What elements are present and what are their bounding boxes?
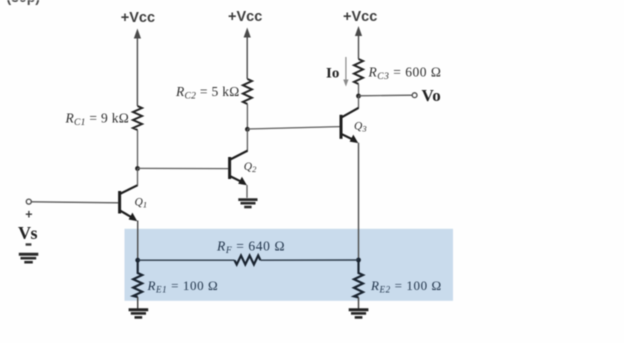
node D (Q3 collector / output) [356, 94, 361, 99]
transistor Q3 [341, 108, 359, 143]
wire Q2 emitter to ground [246, 185, 248, 198]
+Vcc arrow 2 [244, 28, 251, 80]
node E (RF right) [356, 258, 361, 263]
resistor RE1 [133, 260, 142, 297]
svg-text:+: + [25, 208, 32, 222]
node C (Q2 collector) [245, 127, 250, 132]
transistor Q2 [230, 151, 248, 186]
wire node B to RF [138, 259, 235, 261]
+Vcc arrow 1 [134, 29, 141, 107]
wire node C to Q3 base [247, 127, 340, 129]
input terminal circle [26, 199, 31, 204]
wire Q1 emitter down to node B [137, 221, 139, 261]
ground of Vs [19, 254, 39, 262]
resistor RF [235, 256, 261, 265]
wire Q3 emitter down to node E [358, 143, 360, 260]
transistor Q1 [120, 185, 138, 221]
svg-text:Vs: Vs [18, 223, 37, 243]
wire RC1 to node A [137, 130, 139, 169]
resistor RC3 [354, 59, 363, 84]
wire node D to Vo terminal [359, 94, 413, 97]
svg-text:+Vcc: +Vcc [228, 9, 262, 25]
resistor RE2 [354, 260, 363, 297]
ground of Q2 [238, 200, 257, 207]
wire RE1 to ground [137, 297, 139, 309]
wire RC2 to node C [246, 104, 248, 129]
svg-text:+Vcc: +Vcc [343, 9, 377, 25]
+Vcc arrow 3 [355, 26, 362, 59]
resistor RC2 [243, 79, 252, 104]
ground of RE1 [129, 310, 149, 318]
minus sign of Vs [26, 243, 32, 245]
wire RE2 to ground [358, 297, 360, 308]
ground of RE2 [349, 310, 369, 318]
node A (Q1 collector) [135, 166, 140, 171]
wire node A to Q2 base [138, 167, 229, 169]
resistor RC1 [133, 106, 142, 130]
svg-text:(30p): (30p) [7, 0, 40, 5]
feedback network highlight band [125, 229, 454, 301]
svg-text:Io: Io [326, 65, 339, 81]
wire node C down to Q2 collector [246, 129, 248, 151]
node B (RF left) [135, 258, 140, 263]
wire RC3 to node D [358, 84, 360, 96]
Io current arrow [343, 57, 348, 87]
wire input to Q1 base [31, 202, 118, 203]
wire Q1 collector up to node A [137, 169, 139, 186]
Vo terminal circle [412, 93, 417, 98]
wire RF to node E [260, 259, 358, 261]
svg-text:Vo: Vo [422, 86, 441, 105]
svg-text:+Vcc: +Vcc [121, 10, 155, 26]
wire node D down to Q3 collector [358, 96, 360, 108]
